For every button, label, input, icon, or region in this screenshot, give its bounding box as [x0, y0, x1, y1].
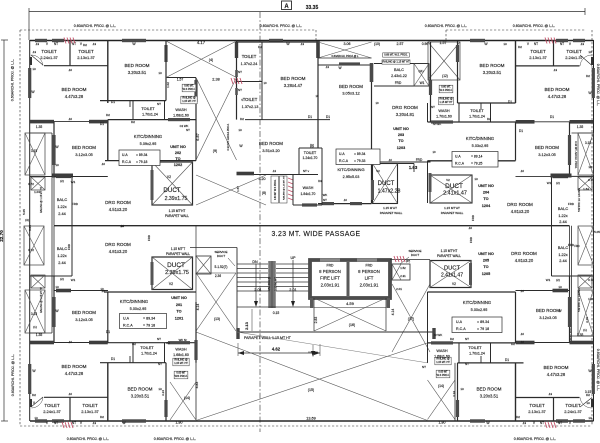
svg-text:D2: D2: [586, 393, 590, 397]
svg-text:TO: TO: [483, 197, 488, 201]
unit 205: bed4.47 top wall y=342.5: [516, 342, 594, 344]
small hatch box right (2): [578, 177, 592, 190]
svg-text:1.64: 1.64: [583, 187, 589, 191]
window block, top wall: [122, 39, 146, 42]
svg-text:.10: .10: [388, 158, 392, 162]
unit 202: toilets bottom wall: [44, 65, 108, 67]
svg-text:2.36: 2.36: [215, 274, 221, 278]
unit 203: top wall y=42: [237, 41, 319, 43]
rotated note boxes next to (8): [271, 176, 279, 203]
section marker A top: [282, 1, 292, 10]
dim 4.62: [238, 352, 320, 354]
svg-text:4.47x3.28: 4.47x3.28: [65, 94, 84, 99]
svg-text:TOILET: TOILET: [530, 49, 546, 54]
unit 201 area box: [120, 314, 167, 329]
unit 203: balcony 2.43x1.22: [374, 63, 429, 65]
unit 204: bed3.20 south wall: [458, 102, 516, 104]
svg-text:0.60ARCHI. PROJ. @ L.L.: 0.60ARCHI. PROJ. @ L.L.: [596, 64, 600, 106]
window block, top wall: [35, 39, 47, 42]
svg-text:3.12x3.05: 3.12x3.05: [538, 152, 556, 157]
svg-text:R.C.A: R.C.A: [123, 324, 133, 328]
window below wash 204: [431, 120, 453, 123]
unit 203 area box: [336, 149, 380, 165]
X region (14) right: [428, 380, 456, 420]
overall top dimension line 33.35: [29, 11, 585, 13]
svg-text:4.14: 4.14: [196, 304, 200, 311]
unit 202: bedroom 3.20 south wall: [100, 100, 166, 102]
svg-text:UNIT NO: UNIT NO: [478, 252, 494, 256]
svg-text:4.81x3.20: 4.81x3.20: [511, 209, 530, 214]
X region (17) right of lifts: [392, 284, 430, 352]
svg-text:0.60ARCHI. PROJ. @ L.L.: 0.60ARCHI. PROJ. @ L.L.: [260, 24, 302, 28]
svg-text:1.70x1.24: 1.70x1.24: [469, 352, 485, 356]
unit 203: middle wall y=119.6 with D1 doors: [245, 119, 330, 121]
svg-text:1.15 MT. HT: 1.15 MT. HT: [182, 100, 196, 103]
unit 205: kitchen top wall: [428, 291, 516, 293]
svg-text:RAILING @ 1.15 MT. HT: RAILING @ 1.15 MT. HT: [283, 175, 286, 200]
svg-text:2.44: 2.44: [559, 259, 566, 263]
svg-text:(4): (4): [209, 58, 213, 62]
svg-text:TOILET: TOILET: [78, 49, 94, 54]
unit 201: bed3.12 west wall x=54: [53, 276, 55, 343]
svg-text:.10: .10: [68, 68, 73, 72]
svg-text:= 89.14: = 89.14: [471, 155, 483, 159]
svg-text:UNIT NO: UNIT NO: [393, 127, 409, 131]
red revision hatch mark: [545, 422, 547, 428]
svg-text:D1: D1: [100, 122, 104, 126]
unit 203: DRG bottom wall: [372, 161, 431, 163]
svg-text:D2: D2: [100, 415, 104, 419]
svg-text:WASH: WASH: [436, 349, 448, 353]
unit 203: toilets east wall x=262: [261, 42, 263, 120]
svg-text:13: 13: [32, 67, 36, 71]
svg-text:10: 10: [315, 94, 319, 98]
svg-text:D2: D2: [240, 117, 244, 121]
svg-text:0.30 MT. ARCHI. PROJ.: 0.30 MT. ARCHI. PROJ.: [574, 141, 578, 169]
svg-text:2.13x1.37: 2.13x1.37: [77, 55, 95, 60]
svg-text:3.15: 3.15: [585, 317, 589, 323]
unit 205 door D2 leaf: [580, 398, 592, 408]
svg-text:202: 202: [175, 151, 181, 155]
svg-text:0.60ARCHI. PROJ. @ L.L.: 0.60ARCHI. PROJ. @ L.L.: [513, 24, 555, 28]
svg-text:3.06: 3.06: [344, 42, 351, 46]
svg-text:4.62: 4.62: [272, 347, 281, 352]
svg-text:.10: .10: [520, 289, 525, 293]
svg-text:TOILET: TOILET: [566, 49, 582, 54]
svg-text:2.31: 2.31: [400, 274, 406, 278]
unit 205: bed3.12 top wall y=290.5: [516, 290, 570, 292]
svg-text:1.22x: 1.22x: [57, 205, 66, 209]
small hatch box left (2): [31, 177, 45, 190]
svg-text:D2: D2: [310, 145, 314, 149]
stair arrows: [255, 264, 257, 303]
svg-text:13: 13: [588, 50, 592, 54]
unit 202: DUCT 2.39x1.75: [152, 162, 193, 205]
svg-text:W1: W1: [547, 181, 552, 185]
svg-text:NT: NT: [54, 42, 58, 46]
svg-text:0.72: 0.72: [588, 278, 594, 282]
svg-text:0.69 MT. W.S. PROJ.: 0.69 MT. W.S. PROJ.: [384, 53, 408, 56]
svg-text:= 79.33: = 79.33: [354, 159, 366, 163]
unit 205: bed3.12 east wall x=569.5: [569, 276, 571, 343]
unit 201: kitchen top wall: [104, 291, 196, 293]
svg-text:4.47x3.28: 4.47x3.28: [65, 371, 84, 376]
svg-text:5.00x2.95: 5.00x2.95: [130, 307, 147, 311]
svg-text:4.47x3.28: 4.47x3.28: [547, 372, 566, 377]
svg-text:13: 13: [460, 387, 464, 391]
svg-text:1.63: 1.63: [409, 165, 418, 170]
svg-text:DUCT: DUCT: [378, 181, 395, 187]
svg-text:W\S PROJ.: W\S PROJ.: [175, 375, 188, 378]
svg-text:U.A: U.A: [455, 155, 461, 159]
unit 202: kitchen south wall: [105, 160, 196, 162]
svg-text:0.60ARCHI. PROJ. @ L.L.: 0.60ARCHI. PROJ. @ L.L.: [154, 437, 196, 441]
svg-text:4.81x3.20: 4.81x3.20: [109, 249, 128, 254]
svg-text:2.44: 2.44: [58, 212, 65, 216]
svg-text:1.22x: 1.22x: [558, 253, 567, 257]
svg-text:TOILET: TOILET: [141, 107, 155, 111]
svg-text:.13: .13: [325, 65, 329, 69]
window block, bottom wall: [556, 419, 568, 422]
window block, bottom wall: [35, 419, 47, 422]
unit 202: bed3.12 west wall x=54: [53, 122, 55, 177]
svg-text:FRD: FRD: [327, 264, 335, 268]
WS proj note left shaft: [182, 84, 196, 92]
svg-text:FRD: FRD: [72, 202, 79, 206]
svg-text:BED ROOM: BED ROOM: [259, 141, 283, 146]
svg-text:BED ROOM: BED ROOM: [479, 63, 504, 68]
svg-text:(2): (2): [556, 181, 560, 185]
outer wall west: [29, 40, 31, 421]
svg-text:2.39x1.75: 2.39x1.75: [165, 270, 189, 276]
svg-text:= 79.18: = 79.18: [136, 160, 148, 164]
svg-text:(12): (12): [442, 74, 448, 78]
svg-text:BED ROOM: BED ROOM: [544, 87, 569, 92]
svg-text:22.70: 22.70: [0, 230, 4, 242]
door swing arc, unit 202 toilet D2: [32, 55, 44, 66]
svg-text:2.03x1.91: 2.03x1.91: [321, 283, 340, 288]
svg-text:2.43x1.22: 2.43x1.22: [391, 74, 407, 78]
svg-text:3.12x3.05: 3.12x3.05: [75, 317, 93, 322]
svg-text:D2: D2: [586, 74, 590, 78]
svg-text:V2: V2: [452, 282, 456, 286]
unit 201 door D2 leaf: [31, 397, 43, 407]
svg-text:10: 10: [263, 81, 267, 85]
svg-text:5.05: 5.05: [594, 230, 600, 234]
svg-text:NT: NT: [186, 128, 190, 132]
svg-text:5.09x2.95: 5.09x2.95: [140, 142, 157, 146]
passage north wall: [54, 225, 570, 227]
svg-text:0.60ARCHI. PROJ. @ L.L.: 0.60ARCHI. PROJ. @ L.L.: [425, 24, 467, 28]
svg-text:5.05: 5.05: [28, 225, 32, 231]
svg-text:2.24x1.37: 2.24x1.37: [40, 55, 58, 60]
window block, top wall: [470, 39, 485, 42]
window block, bottom wall: [122, 419, 146, 422]
divider between 203 toilets: [237, 81, 263, 83]
svg-text:1.80: 1.80: [439, 421, 446, 425]
svg-text:204: 204: [483, 191, 490, 195]
svg-text:W1: W1: [546, 278, 551, 282]
svg-text:(8): (8): [262, 191, 266, 195]
unit 202: balcony top wall y=176.5: [30, 176, 72, 178]
svg-text:NT: NT: [323, 198, 327, 202]
svg-text:C2: C2: [166, 341, 170, 345]
unit 201: wash/toilet walls: [108, 342, 196, 344]
unit 202: left sit-out strip: [30, 132, 52, 134]
window block, top wall: [573, 39, 585, 42]
svg-text:U.A: U.A: [339, 152, 345, 156]
svg-text:D1: D1: [508, 100, 512, 104]
svg-text:NT: NT: [558, 421, 562, 425]
svg-text:2.41x1.47: 2.41x1.47: [443, 191, 467, 197]
svg-text:BALC: BALC: [558, 245, 569, 250]
svg-text:DRG ROOM: DRG ROOM: [507, 202, 533, 207]
svg-text:1.37x2.13: 1.37x2.13: [242, 105, 259, 109]
svg-text:(1): (1): [583, 328, 587, 332]
svg-text:KITC/DINNING: KITC/DINNING: [134, 134, 162, 139]
svg-text:10: 10: [100, 287, 104, 291]
unit 202: toilet divider wall: [69, 40, 71, 66]
svg-text:10: 10: [432, 150, 436, 154]
svg-text:2.24x1.37: 2.24x1.37: [565, 55, 583, 60]
svg-text:= 79 18: = 79 18: [143, 324, 155, 328]
svg-text:0.60ARCHI. PROJ.@ L: 0.60ARCHI. PROJ.@ L: [332, 54, 360, 58]
svg-text:0.60ARCHI. PROJ. @ L.L.: 0.60ARCHI. PROJ. @ L.L.: [11, 59, 15, 101]
void region (4): [165, 41, 167, 78]
svg-text:3.23 MT. WIDE PASSAGE: 3.23 MT. WIDE PASSAGE: [271, 231, 360, 238]
svg-text:U.A: U.A: [123, 317, 130, 321]
svg-text:.13: .13: [92, 42, 97, 46]
svg-text:2.57: 2.57: [397, 42, 404, 46]
unit 201: toilets top wall: [44, 396, 108, 398]
svg-text:PARAPET WALL: PARAPET WALL: [380, 211, 403, 215]
svg-text:1.70x1.24: 1.70x1.24: [142, 113, 158, 117]
window block, top wall: [269, 39, 283, 42]
svg-text:0.72: 0.72: [28, 248, 34, 252]
unit 203: DRG east wall x=430.5: [430, 42, 432, 122]
svg-text:BALC: BALC: [394, 68, 404, 72]
outer wall east: [593, 40, 595, 421]
unit 201: bed3.12 top wall y=290.5: [54, 290, 108, 292]
arrow marker below lifts: [308, 351, 318, 353]
svg-text:1.15 M. HT: 1.15 M. HT: [274, 277, 278, 291]
svg-text:0.60 MT W.S PROJ.: 0.60 MT W.S PROJ.: [275, 179, 277, 200]
svg-text:D2: D2: [106, 113, 110, 117]
svg-text:TOILET: TOILET: [565, 403, 581, 408]
unit 204: bedroom divider x=515.5: [515, 40, 517, 103]
svg-text:WASH: WASH: [303, 186, 314, 190]
svg-text:3.12x3.05: 3.12x3.05: [539, 315, 557, 320]
svg-text:(11): (11): [418, 69, 423, 73]
svg-text:KITC/DINNING: KITC/DINNING: [466, 136, 494, 141]
sitout X strip left bottom upper: [24, 226, 44, 265]
parapet wall below stairs: [237, 331, 435, 333]
X strip (10): [318, 42, 372, 58]
svg-text:3.15: 3.15: [585, 141, 591, 145]
svg-text:NT: NT: [158, 362, 162, 366]
window block, bottom wall: [470, 419, 485, 422]
svg-text:DRG ROOM: DRG ROOM: [511, 251, 537, 256]
svg-text:1.70x1.24: 1.70x1.24: [141, 352, 157, 356]
svg-text:.13: .13: [35, 42, 40, 46]
svg-text:4.59: 4.59: [346, 301, 355, 306]
svg-text:2.24x1.37: 2.24x1.37: [564, 409, 582, 414]
svg-text:W.S PROJ.: W.S PROJ.: [183, 88, 196, 91]
svg-text:1.22x: 1.22x: [57, 254, 66, 258]
svg-text:PARAPET WALL: PARAPET WALL: [437, 254, 461, 258]
svg-text:= 89.34: = 89.34: [136, 153, 148, 157]
svg-text:2.41x1.47: 2.41x1.47: [441, 273, 463, 279]
svg-text:PARAPET WALL 1.15 MT HT: PARAPET WALL 1.15 MT HT: [244, 336, 292, 340]
svg-text:1.15 MT’HT: 1.15 MT’HT: [444, 206, 460, 210]
svg-text:201: 201: [176, 303, 182, 307]
svg-text:1.04: 1.04: [588, 297, 594, 301]
unit 205: balcony walls: [552, 275, 594, 277]
stair treads: [237, 263, 268, 265]
svg-text:D2: D2: [131, 120, 135, 124]
window W, east wall top: [592, 68, 595, 98]
svg-text:4.17: 4.17: [197, 40, 206, 45]
svg-text:R.C.A: R.C.A: [455, 162, 465, 166]
red revision hatch mark: [64, 38, 66, 44]
svg-text:R.C.A: R.C.A: [122, 160, 132, 164]
svg-text:V2: V2: [167, 175, 171, 179]
door swing arc, unit 201 toilet D2: [32, 397, 44, 408]
X region (13) left of stair landing: [196, 273, 236, 331]
svg-text:W1: W1: [71, 180, 76, 184]
pink rotated hatch: [288, 178, 293, 200]
svg-text:U.A: U.A: [456, 320, 463, 324]
svg-text:FRD: FRD: [147, 234, 151, 241]
svg-text:D2: D2: [450, 337, 454, 341]
svg-text:BALC: BALC: [57, 246, 68, 251]
svg-text:5-1.52(7): 5-1.52(7): [215, 265, 228, 269]
passage south wall right of lifts: [390, 259, 430, 261]
svg-text:KITC/DINNING: KITC/DINNING: [463, 300, 491, 305]
svg-text:(2): (2): [556, 278, 560, 282]
unit 204: balcony walls: [551, 176, 553, 225]
svg-text:TO: TO: [483, 265, 488, 269]
svg-text:FRD: FRD: [469, 236, 473, 243]
unit 204: door D2 leaf: [580, 55, 592, 66]
svg-text:1.15 MT’T: 1.15 MT’T: [171, 247, 185, 251]
svg-text:1.68x1.60: 1.68x1.60: [173, 114, 189, 118]
svg-text:D2: D2: [516, 415, 520, 419]
svg-text:TOILET: TOILET: [470, 109, 484, 113]
svg-text:FRD: FRD: [568, 202, 575, 206]
svg-text:2.44: 2.44: [559, 220, 566, 224]
svg-text:W: W: [338, 66, 341, 70]
svg-text:D1: D1: [505, 358, 509, 362]
svg-text:205: 205: [483, 259, 489, 263]
unit 203: bed divider x=318: [317, 41, 319, 120]
svg-text:1204: 1204: [482, 204, 491, 208]
window W on x=54: [52, 135, 55, 165]
svg-text:BED ROOM: BED ROOM: [536, 308, 560, 313]
unit 205: divider x=515.5 bottom: [515, 292, 517, 343]
svg-text:DUCT: DUCT: [444, 266, 461, 272]
svg-text:WASH: WASH: [438, 109, 450, 113]
svg-text:NT: NT: [534, 42, 538, 46]
svg-text:NT: NT: [465, 362, 469, 366]
stair bottom landing line: [237, 306, 310, 308]
svg-text:TOILET: TOILET: [41, 49, 57, 54]
svg-text:RAILING @ 1.15 MT HT: RAILING @ 1.15 MT HT: [40, 187, 43, 213]
svg-text:D2: D2: [487, 117, 491, 121]
left overall dimension 22.70: [3, 40, 5, 421]
svg-text:D2: D2: [511, 342, 515, 346]
svg-text:1.15 M’HT: 1.15 M’HT: [383, 206, 397, 210]
svg-text:DUCT: DUCT: [217, 254, 225, 258]
svg-text:D1: D1: [106, 330, 110, 334]
svg-text:3.15: 3.15: [31, 149, 37, 153]
parapet wall stub left of stairs: [195, 226, 197, 257]
svg-text:.13: .13: [32, 50, 37, 54]
svg-text:3.12x3.05: 3.12x3.05: [75, 152, 93, 157]
svg-text:0.60ARCHI. PROJ. @ L.L.: 0.60ARCHI. PROJ. @ L.L.: [514, 437, 556, 441]
railing note 205 wash: [435, 357, 451, 365]
svg-text:DUCT: DUCT: [411, 253, 419, 257]
svg-text:BED ROOM: BED ROOM: [61, 364, 86, 369]
svg-text:NT: NT: [238, 70, 242, 74]
svg-text:= 79 18: = 79 18: [477, 327, 489, 331]
svg-text:WASH: WASH: [175, 348, 187, 352]
svg-text:BED ROOM: BED ROOM: [339, 84, 363, 89]
svg-text:2.13: 2.13: [244, 321, 249, 330]
svg-text:13: 13: [588, 165, 592, 169]
section line A-A: [259, 12, 261, 432]
svg-text:(13): (13): [214, 317, 220, 321]
svg-text:NT: NT: [238, 88, 242, 92]
railing note balc 203: [382, 60, 410, 64]
svg-text:2.01: 2.01: [396, 287, 402, 291]
unit 202: bed 4.47 bottom wall y=121.5: [30, 121, 108, 123]
svg-text:1.57: 1.57: [440, 41, 447, 45]
svg-text:0.15: 0.15: [273, 311, 280, 315]
svg-text:W.S PROJ.: W.S PROJ.: [440, 89, 453, 92]
svg-text:13: 13: [474, 177, 478, 181]
svg-text:TO: TO: [175, 157, 180, 161]
svg-text:.13: .13: [92, 421, 97, 425]
red revision hatch mark: [62, 422, 64, 428]
stair hall walls: [190, 247, 237, 249]
svg-text:(16): (16): [349, 323, 355, 327]
unit 201 toilet divider: [69, 397, 71, 421]
unit 203: bed3.51 south wall: [237, 174, 319, 176]
sitout X strip left bottom: [25, 290, 45, 333]
svg-text:V2: V2: [446, 178, 450, 182]
svg-text:3.15: 3.15: [31, 312, 37, 316]
svg-text:4.51x3.20: 4.51x3.20: [109, 207, 128, 212]
svg-text:R.C.A: R.C.A: [456, 327, 466, 331]
svg-text:UP: UP: [291, 256, 297, 260]
svg-text:1203: 1203: [397, 146, 405, 150]
svg-text:NT: NT: [422, 365, 426, 369]
svg-text:3.28x4.47: 3.28x4.47: [284, 83, 303, 88]
svg-text:BED ROOM: BED ROOM: [127, 387, 152, 392]
svg-text:1.70x1.60: 1.70x1.60: [436, 115, 452, 119]
svg-text:R.C.A: R.C.A: [339, 159, 349, 163]
red revision hatch mark: [545, 38, 547, 44]
window, bed3.51 south wall: [237, 172, 255, 176]
svg-text:FRD: FRD: [471, 214, 475, 221]
svg-text:BED ROOM: BED ROOM: [72, 310, 96, 315]
svg-text:1.37x2.24: 1.37x2.24: [241, 62, 258, 66]
svg-text:WK N↑: WK N↑: [179, 338, 188, 342]
svg-text:2.13x1.37: 2.13x1.37: [81, 409, 99, 414]
svg-text:6.87: 6.87: [196, 133, 200, 140]
svg-text:TOILET: TOILET: [140, 346, 154, 350]
